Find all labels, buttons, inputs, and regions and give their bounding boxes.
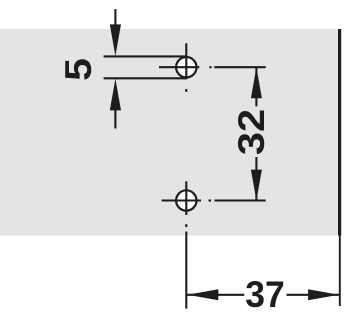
svg-text:32: 32: [231, 109, 272, 155]
svg-text:37: 37: [245, 274, 285, 315]
svg-text:5: 5: [58, 58, 99, 81]
